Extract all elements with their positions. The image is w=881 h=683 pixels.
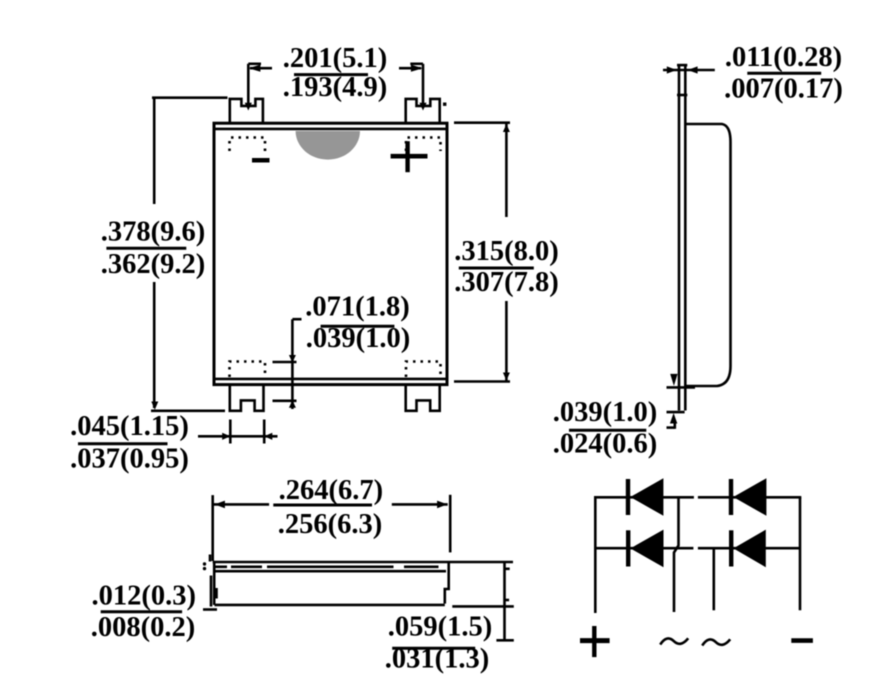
svg-text:.024(0.6): .024(0.6) — [553, 429, 657, 460]
svg-text:.012(0.3): .012(0.3) — [92, 581, 196, 612]
svg-text:.307(7.8): .307(7.8) — [454, 267, 558, 298]
svg-text:.008(0.2): .008(0.2) — [91, 612, 195, 643]
svg-text:.378(9.6): .378(9.6) — [101, 217, 205, 248]
svg-text:.037(0.95): .037(0.95) — [70, 444, 189, 475]
svg-text:.256(6.3): .256(6.3) — [278, 509, 382, 540]
svg-text:.315(8.0): .315(8.0) — [454, 236, 558, 267]
svg-text:.059(1.5): .059(1.5) — [388, 612, 492, 643]
svg-text:.007(0.17): .007(0.17) — [724, 74, 843, 105]
svg-text:.045(1.15): .045(1.15) — [70, 411, 189, 442]
svg-text:.039(1.0): .039(1.0) — [553, 397, 657, 428]
svg-text:.201(5.1): .201(5.1) — [283, 43, 387, 74]
svg-text:.193(4.9): .193(4.9) — [283, 72, 387, 103]
svg-text:.039(1.0): .039(1.0) — [306, 323, 410, 354]
svg-text:.362(9.2): .362(9.2) — [101, 249, 205, 280]
svg-text:.264(6.7): .264(6.7) — [279, 475, 383, 506]
svg-text:.011(0.28): .011(0.28) — [725, 42, 842, 73]
svg-text:.031(1.3): .031(1.3) — [385, 644, 489, 675]
svg-text:.071(1.8): .071(1.8) — [305, 292, 409, 323]
